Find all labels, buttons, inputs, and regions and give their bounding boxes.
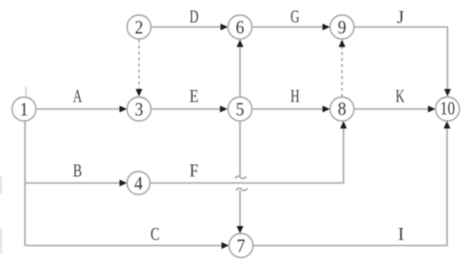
svg-text:1: 1 [20, 100, 29, 121]
arrowhead dummy into node9 bottom [339, 40, 346, 48]
arrowhead A into node3 [120, 106, 128, 113]
label B [73, 161, 82, 181]
wire node5 up to node6 [239, 46, 241, 97]
wire B: stem to node4 [25, 182, 121, 184]
crossing break mark lower [236, 188, 248, 190]
label D [190, 7, 199, 27]
dashed dummy arrow node2 to node3 [138, 40, 140, 91]
wire E: node3 to node5 [151, 108, 222, 110]
wire H: node5 to node8 [252, 108, 324, 110]
node 3 [127, 97, 151, 121]
svg-text:5: 5 [236, 100, 245, 121]
arrowhead into node7 top [237, 226, 244, 234]
wire node5 down (upper segment before crossing break) [239, 121, 241, 176]
arrowhead I into node10 bottom [444, 121, 451, 129]
svg-text:K: K [396, 86, 405, 106]
label F [190, 161, 199, 181]
node 8 [330, 97, 354, 121]
wire J: node9 right then down to node10 [354, 27, 448, 90]
wire F: node4 right then up to node8 [151, 127, 344, 183]
arrowhead G into node9 [323, 24, 331, 31]
arrowhead J into node10 top [444, 89, 451, 97]
arrowhead into node6 bottom [237, 40, 244, 48]
svg-text:8: 8 [338, 99, 347, 120]
wire D: node2 to node6 [151, 26, 222, 28]
svg-text:E: E [190, 86, 199, 106]
wire C: stem to node7 [25, 245, 223, 247]
node 10 [436, 97, 460, 121]
label G [291, 7, 300, 27]
svg-text:C: C [151, 224, 160, 244]
svg-text:B: B [73, 161, 82, 181]
crossing break mark upper [235, 176, 247, 178]
arrowhead H into node8 [323, 106, 331, 113]
node 4 [127, 172, 150, 195]
arrowhead E into node5 [220, 106, 228, 113]
node 6 [228, 15, 252, 39]
svg-text:9: 9 [338, 18, 347, 39]
label E [190, 86, 199, 106]
label C [151, 224, 160, 244]
arrowhead K into node10 [428, 106, 436, 113]
label K [396, 86, 405, 106]
wire node5 down to node7 (lower segment) [239, 191, 241, 229]
svg-text:2: 2 [135, 18, 144, 39]
label H [291, 86, 300, 106]
svg-text:D: D [190, 7, 199, 27]
arrowhead C into node7 [222, 242, 230, 249]
label J [397, 7, 404, 27]
wire G: node6 to node9 [252, 26, 324, 28]
tick above node1 [25, 87, 27, 96]
svg-text:F: F [190, 161, 199, 181]
svg-text:G: G [291, 7, 300, 27]
svg-text:I: I [398, 224, 404, 244]
wire A: node1 to node3 [36, 108, 121, 110]
node 5 [228, 97, 252, 121]
svg-text:7: 7 [237, 236, 246, 257]
svg-text:6: 6 [236, 18, 245, 39]
node 7 [229, 234, 253, 258]
arrowhead B into node4 [120, 180, 128, 187]
node 9 [330, 15, 354, 39]
label I [398, 224, 404, 244]
wire K: node8 to node10 [354, 108, 430, 110]
dashed dummy arrow node8 to node9 [341, 46, 343, 97]
svg-text:3: 3 [135, 100, 144, 121]
label A [73, 86, 82, 106]
svg-text:H: H [291, 86, 300, 106]
svg-text:A: A [73, 86, 82, 106]
scan smudge left edge [0, 176, 2, 254]
wire stem from node1 down [24, 121, 26, 246]
svg-text:10: 10 [440, 99, 455, 120]
node 1 [12, 97, 36, 121]
wire I: node7 right then up to node10 [253, 127, 447, 246]
arrowhead dummy into node3 top [136, 89, 143, 97]
svg-text:4: 4 [134, 174, 143, 195]
svg-text:J: J [397, 7, 404, 27]
node 2 [127, 15, 151, 39]
arrowhead D into node6 [221, 24, 229, 31]
arrowhead F into node8 bottom [340, 121, 347, 129]
